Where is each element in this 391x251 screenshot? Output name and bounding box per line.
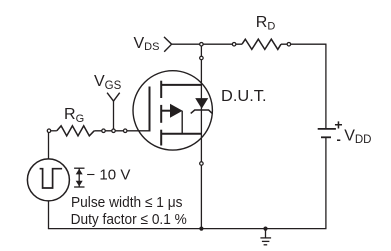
wire: bottom ground rail (48, 228, 327, 230)
node: drain junction (200, 42, 204, 46)
body diode cathode bar (191, 110, 213, 114)
drain finger (161, 84, 201, 86)
battery VDD short plate (321, 136, 331, 138)
ground bar 3 (264, 244, 268, 246)
body arrow head (170, 104, 183, 118)
svg-text:− 10 V: − 10 V (86, 167, 130, 184)
source finger (161, 133, 201, 135)
wire: VGS probe stem (113, 101, 115, 131)
svg-text:-: - (337, 132, 341, 147)
resistor RD zigzag (242, 39, 281, 49)
dimension arrow head up (76, 169, 83, 175)
probe chevron VDS (164, 37, 172, 52)
resistor RG zigzag (57, 126, 94, 136)
svg-text:VDD: VDD (344, 128, 371, 147)
wire: top drain net, chevron to R_D left (172, 43, 242, 45)
wire: pulse generator top lead (48, 133, 50, 159)
probe chevron VGS with stem (107, 93, 120, 101)
body diode triangle (195, 98, 208, 109)
dimension arrow shaft (78, 168, 80, 187)
body finger (161, 110, 171, 112)
svg-text:Pulse width ≤ 1 μs: Pulse width ≤ 1 μs (71, 194, 183, 211)
dimension arrow head down (76, 181, 83, 187)
channel segment middle (160, 105, 162, 123)
svg-text:RG: RG (64, 106, 84, 125)
battery VDD long plate (318, 128, 336, 130)
wire: pulse generator bottom lead (48, 201, 50, 229)
junction dot: ground tap (263, 227, 267, 231)
node: RG right terminal (102, 129, 106, 133)
wire: battery minus down to bottom-right corner (325, 137, 327, 228)
node: generator output terminal (47, 129, 51, 133)
dimension arrow cap top (74, 167, 84, 169)
wire: R_D right to top-right corner (281, 43, 327, 45)
wire: R_G right to gate bar (94, 130, 149, 132)
node: VGS tap (112, 129, 116, 133)
svg-text:RD: RD (256, 14, 276, 32)
svg-text:VGS: VGS (94, 73, 122, 92)
channel segment bottom (160, 130, 162, 146)
node: DUT source terminal (200, 162, 204, 166)
svg-text:D.U.T.: D.U.T. (221, 88, 267, 105)
node: RD right terminal (287, 42, 291, 46)
channel segment top (160, 81, 162, 98)
body tie wire (181, 111, 183, 134)
junction dot: source to rail (199, 227, 203, 231)
ground bar 2 (262, 240, 270, 242)
node: RD left terminal (232, 42, 236, 46)
wire: right branch down to battery plus (325, 44, 327, 129)
svg-text:Duty factor ≤ 0.1 %: Duty factor ≤ 0.1 % (71, 211, 187, 228)
MOSFET DUT circle (133, 71, 212, 150)
node: DUT drain terminal (200, 56, 204, 60)
pulse generator circle (27, 159, 69, 201)
node: DUT gate terminal (123, 129, 127, 133)
ground stem (265, 229, 267, 238)
wire: drain vertical, node to MOSFET and source down to rail (200, 44, 202, 228)
ground bar 1 (260, 237, 271, 239)
dimension arrow cap bottom (74, 186, 84, 188)
pulse waveform symbol (40, 169, 63, 188)
svg-text:VDS: VDS (134, 35, 160, 53)
wire: gate net, generator to R_G (49, 130, 57, 132)
svg-text:+: + (334, 117, 342, 133)
gate bar (149, 87, 151, 132)
